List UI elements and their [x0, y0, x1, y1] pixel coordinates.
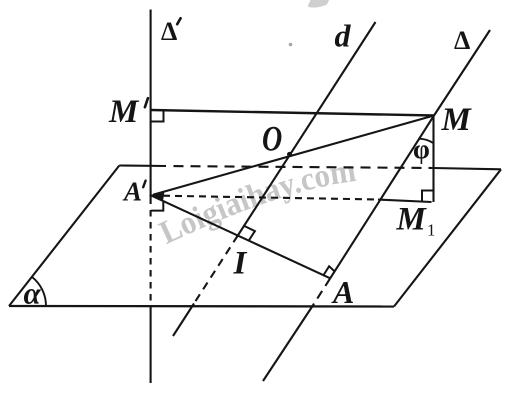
line Delta: solid from top through M to A	[330, 30, 490, 278]
svg-text:M: M	[396, 202, 428, 238]
svg-text:Δ: Δ	[454, 26, 470, 55]
plane alpha: bottom edge	[9, 305, 394, 308]
point O dot	[287, 152, 292, 157]
line Delta: solid lower part below plane	[263, 307, 312, 382]
segment M to M1 vertical	[432, 116, 434, 203]
line d: dashed part inside plane	[194, 236, 238, 304]
svg-text:O: O	[262, 118, 282, 158]
svg-text:I: I	[233, 246, 248, 282]
svg-text:M: M	[441, 102, 473, 138]
segment A-prime to M1: dashed part	[151, 196, 378, 200]
plane alpha: left edge	[9, 166, 119, 307]
svg-text:A: A	[331, 274, 354, 310]
segment A-prime to M with arrowhead at A-prime	[153, 116, 434, 195]
segment A-prime to A	[151, 195, 330, 278]
right angle marker at M-prime	[151, 111, 164, 122]
watermark Loigiaihay.com	[166, 181, 359, 245]
line Delta: dashed part from A to plane bottom edge	[312, 278, 330, 306]
svg-text:α: α	[24, 276, 42, 311]
right angle marker at I	[244, 226, 255, 241]
right angle marker at M1	[422, 191, 434, 203]
line Delta-prime vertical: solid lower	[150, 305, 152, 383]
angle alpha arc	[32, 277, 46, 306]
right angle marker at A-prime	[151, 202, 163, 211]
svg-text:1: 1	[427, 221, 436, 240]
svg-text:Δ: Δ	[161, 17, 177, 46]
line d: solid upper part	[238, 22, 376, 236]
line Delta-prime vertical: dashed middle	[150, 210, 152, 305]
right angle marker at A	[323, 266, 334, 275]
plane alpha: top edge solid right part	[434, 168, 502, 169]
segment M-prime to M horizontal	[151, 110, 434, 116]
svg-text:M: M	[108, 94, 140, 130]
plane alpha: top edge dashed part	[174, 166, 434, 168]
segment A-prime to M1: solid part right of Delta	[378, 200, 432, 203]
svg-text:d: d	[335, 18, 352, 54]
arrowhead at A-prime	[151, 192, 164, 200]
plane alpha: right edge	[394, 169, 501, 306]
line d: solid lower part below plane	[173, 304, 194, 337]
angle phi arc at M	[418, 139, 434, 144]
svg-text:φ: φ	[413, 134, 430, 164]
line Delta-prime vertical: solid upper	[150, 10, 152, 205]
svg-text:A: A	[122, 177, 142, 207]
plane alpha: top edge solid left part	[119, 164, 166, 167]
watermark fragment top	[289, 0, 329, 46]
